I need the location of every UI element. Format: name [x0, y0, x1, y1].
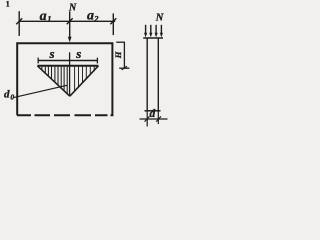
- column top line: [143, 37, 163, 39]
- stress triangle top edge: [37, 65, 98, 67]
- tick center: [67, 18, 73, 24]
- s tick left: [37, 58, 39, 64]
- tick left: [16, 18, 22, 24]
- svg-text:a: a: [87, 9, 94, 24]
- svg-text:1: 1: [47, 13, 51, 23]
- H bottom slant tick: [122, 66, 127, 70]
- d tick right: [156, 116, 161, 121]
- H bottom end tick: [119, 67, 129, 69]
- svg-text:a: a: [40, 9, 47, 24]
- column bottom line: [145, 110, 161, 112]
- extension below right: [157, 111, 159, 124]
- extension line left (a1 dimension): [18, 11, 20, 36]
- arrowhead of N: [68, 37, 72, 42]
- triangle right slope: [70, 66, 99, 96]
- s tick right: [96, 58, 98, 64]
- svg-text:d: d: [4, 88, 10, 100]
- svg-text:N: N: [155, 13, 164, 24]
- svg-text:s: s: [49, 46, 55, 61]
- svg-text:0: 0: [10, 93, 14, 102]
- H dimension vertical line: [123, 42, 125, 68]
- distributed load arrow 4: [160, 25, 162, 34]
- svg-text:H: H: [113, 51, 123, 59]
- load N axis line: [69, 11, 71, 38]
- H top end tick: [116, 41, 125, 43]
- svg-text:2: 2: [93, 14, 99, 24]
- svg-text:d: d: [150, 108, 156, 120]
- distributed load arrow 3: [155, 25, 157, 34]
- plate rectangle (3 solid sides): [17, 43, 112, 115]
- column right edge: [157, 38, 159, 111]
- triangle left slope: [37, 66, 69, 96]
- leader line from d0: [14, 85, 68, 97]
- hatching left half: [42, 67, 67, 95]
- column left edge: [146, 38, 148, 111]
- extension below left: [146, 111, 148, 127]
- d dimension line: [140, 118, 168, 120]
- d tick left: [145, 116, 150, 121]
- tick right: [110, 18, 116, 24]
- svg-text:1: 1: [6, 0, 10, 8]
- dimension line a1+a2: [19, 20, 116, 22]
- svg-text:s: s: [75, 46, 81, 61]
- distributed load arrow 2: [150, 25, 152, 34]
- extension line right (a2 dimension): [112, 13, 114, 35]
- center axis line: [69, 52, 71, 95]
- distributed load arrow 1: [145, 25, 147, 34]
- hatching right half: [75, 67, 95, 92]
- s dimension line: [38, 60, 98, 62]
- plate bottom edge dashed: [17, 114, 113, 116]
- svg-text:N: N: [68, 2, 77, 13]
